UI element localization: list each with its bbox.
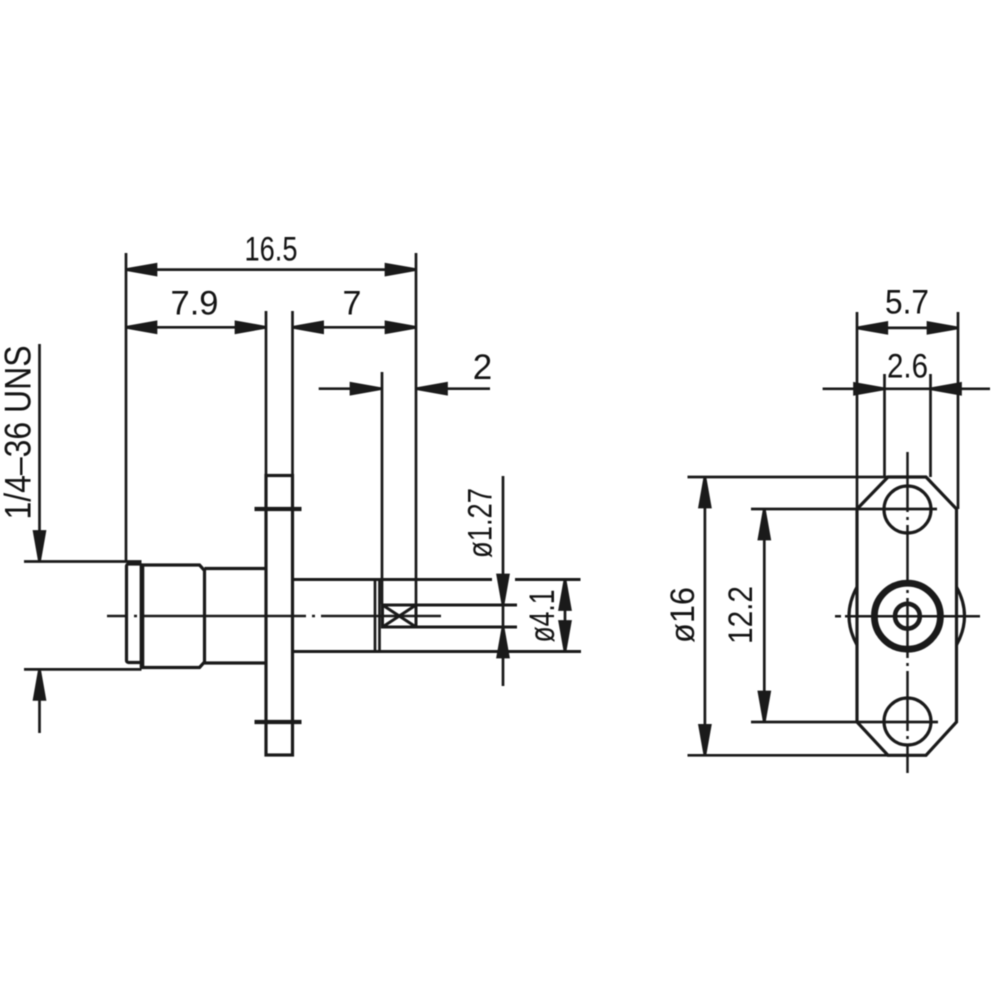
dimension 16.5: [126, 264, 416, 275]
dimension 7: [293, 322, 416, 333]
connector front cap (thread runout): [127, 564, 142, 663]
side bulge arcs: [849, 587, 965, 645]
mounting hole top: [884, 486, 931, 533]
mounting hole bottom: [884, 698, 931, 745]
flange outline front view: [857, 477, 957, 755]
centerline left view: [107, 615, 441, 618]
thread callout leader 1/4-36 UNS: [34, 344, 45, 733]
mid cylinder between body and flange: [205, 569, 267, 664]
dielectric end face double line: [375, 580, 380, 652]
extension lines right view: [688, 312, 959, 755]
dimension 2.6: [823, 384, 990, 395]
dimension 5.7: [857, 323, 958, 334]
center jack ring: [874, 583, 940, 649]
centerlines right view: [835, 452, 980, 773]
dimension o1.27: [498, 476, 509, 686]
dimension o4.1: [560, 580, 571, 652]
svg-text:1/4–36 UNS: 1/4–36 UNS: [0, 346, 39, 520]
svg-text:ø1.27: ø1.27: [462, 488, 500, 558]
svg-text:7: 7: [343, 285, 362, 323]
extension lines left view: [24, 253, 416, 669]
svg-text:7.9: 7.9: [171, 285, 219, 323]
dimension 12.2: [759, 509, 770, 722]
svg-text:ø16: ø16: [664, 587, 702, 643]
svg-text:5.7: 5.7: [885, 284, 929, 322]
dimension 7.9: [126, 322, 266, 333]
dielectric cylinder o4.1 outline and extension lines: [293, 580, 582, 652]
svg-text:16.5: 16.5: [245, 231, 298, 269]
flange hole centerline marks side view: [255, 509, 302, 722]
svg-text:2.6: 2.6: [887, 348, 928, 386]
svg-text:2: 2: [473, 348, 492, 387]
center pin with crossed box: [383, 605, 518, 627]
svg-text:ø4.1: ø4.1: [523, 590, 562, 643]
dimension o16: [700, 477, 711, 755]
svg-text:12.2: 12.2: [722, 586, 760, 644]
connector thread body: [142, 565, 205, 668]
dimension 2: [319, 383, 490, 394]
flange side view: [266, 476, 293, 756]
